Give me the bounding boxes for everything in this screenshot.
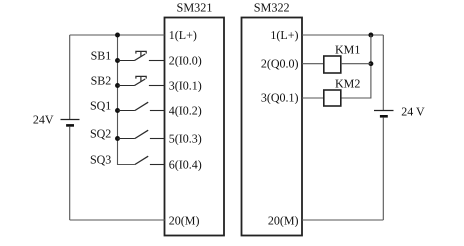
svg-text:SQ2: SQ2	[90, 127, 111, 141]
svg-text:SB2: SB2	[91, 74, 112, 88]
wire: switch bus rail vertical with corner to SQ3	[118, 35, 135, 165]
contactor coil KM1	[324, 56, 341, 73]
wire: left battery rail upper segment	[69, 35, 71, 120]
wire: right battery rail upper segment	[382, 35, 384, 111]
svg-text:SM321: SM321	[177, 1, 213, 15]
wire: bottom horizontal from U2 pin 20 to right rail	[302, 219, 383, 221]
wire: bottom horizontal from left rail to U1 pin 20	[70, 219, 165, 221]
junction node: SB1 tap	[115, 58, 120, 63]
svg-text:2(Q0.0): 2(Q0.0)	[261, 57, 299, 71]
svg-text:SQ3: SQ3	[90, 153, 111, 167]
svg-text:SB1: SB1	[91, 49, 112, 63]
limit switch SQ2 (NO)	[118, 130, 165, 138]
limit switch SQ3 (NO)	[135, 156, 165, 164]
svg-text:20(M): 20(M)	[268, 213, 299, 227]
module U1 box SM321	[165, 18, 225, 236]
svg-text:3(I0.1): 3(I0.1)	[169, 78, 202, 92]
wire: top horizontal from left battery rail to U1 pin 1	[70, 34, 165, 36]
svg-text:6(I0.4): 6(I0.4)	[169, 158, 202, 172]
junction node: SB2 tap	[115, 83, 120, 88]
junction node: KM1 return tap	[368, 61, 373, 66]
svg-text:4(I0.2): 4(I0.2)	[169, 103, 202, 117]
junction node: SQ1 tap	[115, 108, 120, 113]
wire: U2 pin 1 to right battery rail	[302, 34, 383, 36]
svg-text:20(M): 20(M)	[169, 213, 200, 227]
pushbutton SB1 (NO)	[118, 51, 165, 60]
junction node: coil return rail on pin 1 wire	[368, 33, 373, 38]
limit switch SQ1 (NO)	[118, 102, 165, 110]
junction node: bus rail on top wire	[115, 33, 120, 38]
svg-text:5(I0.3): 5(I0.3)	[169, 132, 202, 146]
svg-text:SM322: SM322	[254, 1, 290, 15]
contactor coil KM2	[324, 90, 341, 106]
wire: U2 pin 2 to coil KM1	[302, 63, 324, 65]
svg-text:1(L+): 1(L+)	[169, 28, 197, 42]
svg-text:24 V: 24 V	[401, 105, 425, 119]
battery B1 24V left: long positive plate	[61, 119, 80, 121]
battery B1 24V left: short thick negative plate	[66, 124, 74, 127]
svg-text:24V: 24V	[33, 113, 54, 127]
svg-text:1(L+): 1(L+)	[270, 28, 298, 42]
svg-text:KM2: KM2	[335, 76, 360, 90]
svg-text:3(Q0.1): 3(Q0.1)	[261, 90, 299, 104]
svg-text:2(I0.0): 2(I0.0)	[169, 53, 202, 67]
module U2 box SM322	[242, 18, 303, 236]
battery B2 24 V right: long positive plate	[374, 110, 394, 112]
battery B2 24 V right: short thick negative plate	[380, 115, 388, 118]
wire: U2 pin 3 to coil KM2	[302, 97, 324, 99]
svg-text:KM1: KM1	[335, 42, 360, 56]
junction node: SQ2 tap	[115, 136, 120, 141]
svg-text:SQ1: SQ1	[90, 99, 111, 113]
wire: right battery rail lower segment	[382, 118, 384, 220]
pushbutton SB2 (NO)	[118, 76, 165, 85]
wire: coil return rail vertical with corner to KM2	[341, 35, 371, 98]
wire: coil KM1 to return rail	[341, 63, 371, 65]
wire: left battery rail lower segment	[69, 127, 71, 220]
